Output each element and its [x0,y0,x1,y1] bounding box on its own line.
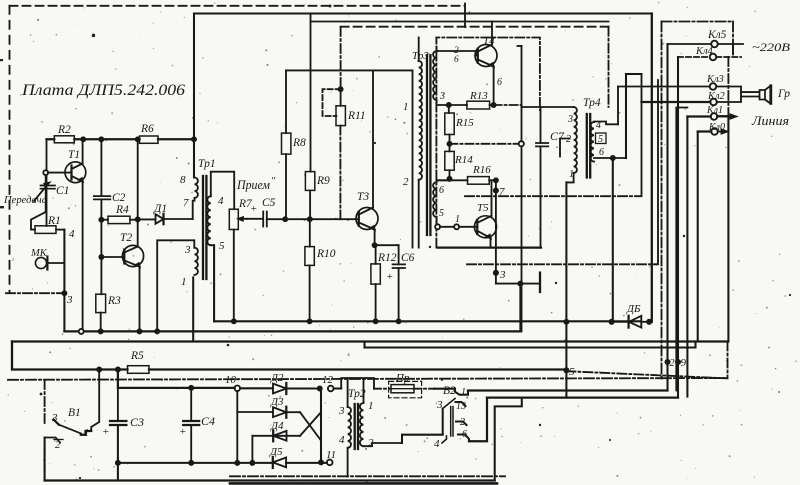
svg-text:3: 3 [436,399,443,411]
resistor R10 [305,219,314,321]
svg-text:1: 1 [461,387,466,398]
wire x626 from tap6 up [625,74,627,158]
svg-text:С7: С7 [550,129,565,143]
wire x99.2 to B1 contact 1 [91,370,99,432]
wire x64.4 node4 down through mic to bus [63,230,65,332]
resistor R11 with dashed adjust box [323,87,346,125]
bottom heavy border y483.2 [230,482,497,485]
Tr4 primary bottom lead pin1 [566,173,573,182]
Tr3 primary top lead [418,38,420,62]
junction R8 on priem wire [283,217,287,221]
svg-text:Д4: Д4 [270,420,284,432]
wire corner x658 up [656,80,658,264]
svg-text:1: 1 [569,169,574,180]
Tr1 right winding bottom lead to bus [211,245,214,321]
svg-text:Кл5: Кл5 [707,29,727,41]
resistor R5 [128,366,150,374]
svg-text:2: 2 [460,417,465,428]
svg-text:3: 3 [51,412,58,424]
svg-text:В2: В2 [443,385,456,397]
wire T3 collector line x412.5 [412,70,414,247]
svg-text:С6: С6 [401,252,415,264]
top rail y13.5 [194,12,652,14]
bottom wire y480.5 [45,479,495,481]
wire x687.4 Kl1 riser [686,117,688,397]
Tr1 right winding top lead to R7 [211,172,234,210]
minus bus y462.9 [118,462,327,464]
svg-text:4: 4 [69,228,75,240]
microphone MK [35,257,64,270]
svg-text:Д3: Д3 [270,396,284,408]
Tr2 core [355,404,358,449]
svg-text:R11: R11 [347,110,366,122]
connector circle on bus [79,329,84,334]
junction T3 emitter node [373,243,377,247]
svg-text:Д5: Д5 [269,446,283,458]
switch B1 contact 1 [81,431,91,435]
terminal Kl0 [711,128,718,135]
resistor R14 [445,151,454,181]
svg-text:6: 6 [454,55,459,65]
junction R4 tap [99,218,103,222]
ground bus y331.4 [64,330,520,332]
cross wire D4 from node 12 [300,412,321,436]
junction R6 to pin8 riser [192,137,196,141]
svg-text:R1: R1 [47,215,61,227]
shield box right edge upper [732,22,734,58]
wire node7 riser x495.9 [495,180,497,283]
heavy wire x651.8 right flank [651,14,653,322]
wire y180.3 winding to R16 [438,179,468,181]
svg-text:~220В: ~220В [752,42,790,54]
Tr2 primary bottom lead [347,448,349,477]
svg-text:Т4: Т4 [483,35,495,47]
switch B2 contact 2 [456,422,467,426]
dash-dot wire node5 net slanting right [566,371,726,378]
Tr3 secondary upper winding [433,51,436,100]
wire Tr1 pin1 down [192,277,194,341]
wire Kl5 right to 220V [718,44,743,54]
svg-text:4: 4 [596,120,601,131]
fuse Pr [374,385,434,393]
svg-text:Кл4: Кл4 [695,46,714,57]
svg-text:R6: R6 [140,123,154,135]
svg-text:R2: R2 [57,124,71,136]
junction R7 on bus [232,319,236,323]
svg-text:Тр2: Тр2 [348,388,366,400]
svg-text:Т5: Т5 [477,202,489,214]
svg-text:Т1: Т1 [68,149,80,161]
junction on DB line [564,320,568,324]
resistor R6 [140,136,159,143]
wire Kl2 left [642,101,711,103]
wire corner x214 [213,245,215,321]
cross wire D3 to node 11 [300,412,321,440]
block bottom rail y247.6 [438,246,541,248]
wire R1 left hook [31,212,46,230]
svg-text:3: 3 [338,405,345,417]
svg-text:3: 3 [184,244,191,256]
svg-text:Кл1: Кл1 [706,105,723,116]
svg-text:12: 12 [322,374,334,386]
terminal Kl3 [710,83,717,90]
switch B1 blade [59,425,81,434]
dashed rail y26.7 [341,26,609,28]
svg-text:Тр4: Тр4 [583,97,601,109]
svg-text:4: 4 [339,434,345,446]
resistor R1 [35,226,56,234]
junction node 9 [676,360,680,364]
svg-text:4: 4 [218,195,224,207]
diode DB [610,316,652,328]
svg-text:5: 5 [439,208,444,219]
junction T2 base tap [99,255,103,259]
junction R9-R10 on priem wire [308,217,312,221]
long wire y341.5 Kl0 net [12,340,728,342]
connector circle on x521.5 [519,141,524,146]
svg-text:Д2: Д2 [270,372,284,384]
wire T3 emitter node to C6 [375,244,399,246]
junction pin3 wire on bus [155,329,159,333]
Tr3 unit dashed box [436,38,540,248]
svg-text:ДБ: ДБ [626,303,641,315]
junction D2 out [318,386,322,390]
loudspeaker Gr [716,86,771,104]
svg-text:13: 13 [456,401,466,412]
junction R3 on bus [99,329,103,333]
resistor R4 [101,216,136,223]
board outline bottom-left dash-dot [6,292,64,294]
wire y107 Tr4 primary top feed [522,106,574,108]
svg-text:R10: R10 [316,248,336,260]
junction C3 riser [116,367,120,371]
supply rail y139.3 [47,138,195,140]
heavy wire y390.5 B2 contact1 to Kl5 riser [468,389,668,391]
wire y406.4 link [495,398,522,481]
svg-text:1: 1 [368,400,374,412]
wire x678 Kl4 riser to B2 wire [677,57,679,398]
wire link to T5 base [440,226,474,228]
Tr1 pin7 lead [194,198,196,201]
Tr3 primary bottom lead [418,180,420,248]
wire contact6 to Kl1 net [469,398,487,442]
wire x321 riser 12 to 11 [320,389,322,463]
svg-text:″: ″ [271,176,276,187]
capacitor C1 (trimmer) [34,175,55,211]
wire x252.4 D4 down [251,436,253,463]
transformer Tr2 primary winding [348,407,351,448]
svg-text:9: 9 [681,357,687,369]
dash-dot wire R13 to x521.5 [494,104,522,106]
dash-dot riser x608.5 to Tr4 [608,27,610,107]
svg-text:R13: R13 [469,90,488,102]
wire Kl0 left to riser [698,130,712,132]
Tr1 pin8 lead [193,177,196,179]
resistor R16 [468,177,496,185]
diode D1 [138,214,193,224]
svg-text:Передача: Передача [3,195,47,206]
svg-text:R3: R3 [107,295,121,307]
shield box right flank dash-dot left edge [661,22,663,380]
svg-text:1: 1 [403,101,409,113]
Tr4 tap5 box [596,133,607,144]
power unit shield bottom dash-dot [230,475,505,477]
wire x194 from rail to Tr1 pin8 [193,14,195,178]
svg-text:Пр: Пр [395,372,410,384]
capacitor C6 electrolytic [393,245,405,321]
wire x521.5 long riser [521,46,523,331]
svg-text:С3: С3 [130,415,144,429]
wire x520.4 down to bus [519,284,521,332]
Tr3 secondary upper tap3 lead [437,100,449,105]
rail y21.5 [311,21,609,23]
junction T2 emitter on bus [137,329,141,333]
junction R4 to T2 collector [136,217,140,221]
transformer Tr3 primary winding [419,61,422,180]
wire to D3 [237,411,273,413]
junction node 7 [494,178,498,182]
svg-text:R9: R9 [316,175,330,187]
svg-text:МК: МК [30,248,48,259]
svg-text:Плата ДЛП5.242.006: Плата ДЛП5.242.006 [21,82,185,99]
node base junction open circle [43,170,48,175]
junction C3 bottom [116,461,120,465]
wire Tr1 pin3 to left [157,240,194,331]
svg-text:Кл2: Кл2 [707,91,726,102]
diode D2 [273,383,320,394]
dash-dot wire y264.3 [467,263,656,265]
wire x117.9 riser and y387.9 feed [118,370,235,388]
transistor T2 [103,139,144,331]
wire x697.7 Kl0 riser down [697,132,699,342]
svg-text:8: 8 [180,174,186,186]
junction C2 riser on rail [99,137,103,141]
svg-text:R14: R14 [454,154,473,166]
switch B2 bar [451,407,453,437]
svg-text:+: + [386,271,393,283]
svg-text:7: 7 [183,197,189,209]
capacitor C3 [110,388,126,481]
junction DB riser [611,156,615,160]
junction C4 bottom [189,461,193,465]
transformer Tr1 left winding lower pins 3-1 [195,248,198,275]
wire Kl1 right link to x728.4 [717,115,728,117]
resistor R3 [96,294,106,331]
diode D3 [273,407,300,418]
heavy wire y397.6 B2 contact6 to Kl4 riser [487,396,678,398]
transformer Tr1 right winding [207,196,210,245]
wire y347.5 [365,342,696,348]
svg-text:1: 1 [181,276,187,288]
wire x641.5 Kl2 riser [641,74,643,196]
wire y283.6 with plate bar [496,283,539,285]
node 7 terminal dot [494,188,498,192]
svg-text:Линия: Линия [751,113,789,128]
svg-text:Тр3: Тр3 [412,50,429,62]
transformer Tr4 secondary winding [591,122,594,162]
svg-text:1: 1 [84,428,89,439]
Tr2 secondary tap2 lead [364,435,403,447]
junction R12 on bus [374,319,378,323]
junction dash-dot y143.8 [447,142,451,146]
wire Kl1 arrow right [717,115,736,119]
svg-text:2: 2 [670,358,675,369]
wire x667.5 Kl5 riser to B2 wire [666,44,668,391]
capacitor C7 [536,107,548,248]
svg-text:С4: С4 [201,414,215,428]
Tr3 secondary upper top lead to T4 base [437,47,476,56]
svg-text:R4: R4 [115,204,129,216]
link circles T5 base [435,224,440,229]
svg-text:2: 2 [403,176,409,188]
svg-text:Тр1: Тр1 [198,158,216,170]
junction D5 out [319,460,323,464]
board outline top dashed border [10,5,466,7]
wire y74 link [626,73,642,75]
svg-text:В1: В1 [68,407,81,419]
svg-text:3: 3 [66,294,73,306]
Tr4 tap4 lead to Kl3 riser [594,122,618,125]
junction x252.4 on minus bus [250,461,254,465]
junction T2 collector on rail [136,137,140,141]
Tr3 secondary lower top lead [437,180,449,182]
svg-text:Кл0: Кл0 [708,122,725,133]
wire Kl0 arrow right [718,130,727,134]
supply rail y369.5 with R5 [12,342,566,370]
wire R7 bottom to bus [233,230,235,322]
svg-text:5: 5 [569,366,575,378]
junction x237 on minus bus [235,461,239,465]
terminal circle 11 [327,460,333,466]
svg-text:3: 3 [499,269,506,281]
transformer Tr4 primary winding [574,107,577,173]
diode D5 [273,457,286,468]
Tr4 tap2 stub [560,139,570,157]
Tr1 core [203,176,206,279]
ground bus y321.3 [214,320,641,322]
resistor R8 [282,70,291,219]
wire x566.4 down to node 5 [565,182,567,397]
svg-text:10: 10 [225,374,237,386]
wire node12 to Tr2 [334,387,342,389]
terminal Kl2 [710,99,717,106]
resistor R12 [371,245,380,321]
switch B2 blade upper [443,399,455,409]
junction T1 collector on rail [81,137,85,141]
power unit shield top dash-dot [8,378,726,380]
wire D1 up to Tr1 pin7 [192,201,194,219]
Tr4 tap6 lead [594,157,626,159]
junction C6 on bus [397,319,401,323]
transformer Tr2 secondary winding [360,403,364,446]
transformer Tr1 left winding upper pins 8-7 [195,178,198,198]
svg-text:R15: R15 [455,117,474,129]
wire contact3 net [402,409,443,444]
terminal Kl4 [710,54,717,61]
wire x101.5 C2/R4/T2 base riser [100,139,102,294]
svg-text:3: 3 [567,114,573,125]
wire Kl4 dash right [716,56,741,58]
wire Kl1 left [687,115,710,117]
svg-text:Т2: Т2 [120,232,132,244]
wire Kl5 left [668,43,712,45]
resistor R13 [447,101,496,109]
switch B1 contact 2 wire [45,438,61,443]
svg-text:С2: С2 [112,192,126,204]
switch B2 contact 1 [434,389,468,395]
svg-text:Кл3: Кл3 [706,74,724,85]
transistor T5 [474,180,497,247]
svg-text:4: 4 [434,438,440,450]
dash-dot wire below R11 [339,126,341,220]
wire Kl4 dash left [678,56,710,58]
junction C4 top [189,386,193,390]
svg-text:6: 6 [439,185,444,196]
switch B2 contact 6 [458,435,469,442]
svg-text:R8: R8 [292,137,306,149]
Tr3 secondary lower bottom to link circle [436,217,438,224]
terminal ticks [709,40,714,131]
svg-text:2: 2 [566,134,571,145]
svg-text:R12: R12 [377,252,397,264]
svg-text:Д1: Д1 [153,203,167,215]
svg-text:С5: С5 [262,197,276,209]
svg-text:5: 5 [219,240,225,252]
junction R10 on bus [308,319,312,323]
resistor R15 [445,105,454,151]
junction B1 riser [97,367,101,371]
dash-dot wire y196.2 [465,195,641,197]
potentiometer R7 [229,209,247,229]
transistor T4 [475,22,497,106]
junction node 5 [564,368,568,372]
overbar B1 contact2 [54,439,63,441]
switch B1 box left dash-dot edge [44,380,46,477]
wire x728.4 down to y341.5 [727,116,729,341]
capacitor C4 [183,388,199,463]
junction x520.4 [518,282,522,286]
wire Kl3 left [618,86,710,88]
svg-text:6: 6 [497,77,502,88]
svg-text:5: 5 [598,134,603,145]
resistor R9 [305,172,314,220]
switch B1 contact 3 [54,420,59,425]
Tr3 core [427,55,430,235]
svg-text:6: 6 [599,147,604,158]
svg-text:1: 1 [455,214,460,225]
Tr4 core [587,114,590,178]
wire x612.8 down to DB [612,158,614,322]
switch B2 contact 4 hook [442,436,447,443]
terminal circle 12 [328,386,334,392]
wire x46.5 R2 left down to C1 and R1 [46,139,48,226]
board outline left dashed border [9,6,11,293]
svg-text:11: 11 [326,449,336,461]
svg-text:С1: С1 [56,185,69,197]
transistor T3 [356,70,378,245]
Tr3 secondary lower winding [433,182,436,217]
wire node10 to D2 [240,387,273,389]
junction node 2 [665,360,669,364]
dash-dot wire x340.6 to R11 [340,27,342,89]
wire x237 riser [236,391,238,463]
terminal Kl1 [711,113,718,120]
capacitor C5 [247,212,285,227]
shield box right edge dash-dot lower [727,57,730,378]
svg-text:Т3: Т3 [357,191,369,203]
wire x618 Kl3 riser [617,87,619,125]
wire x44.6 down to bottom [44,438,46,481]
